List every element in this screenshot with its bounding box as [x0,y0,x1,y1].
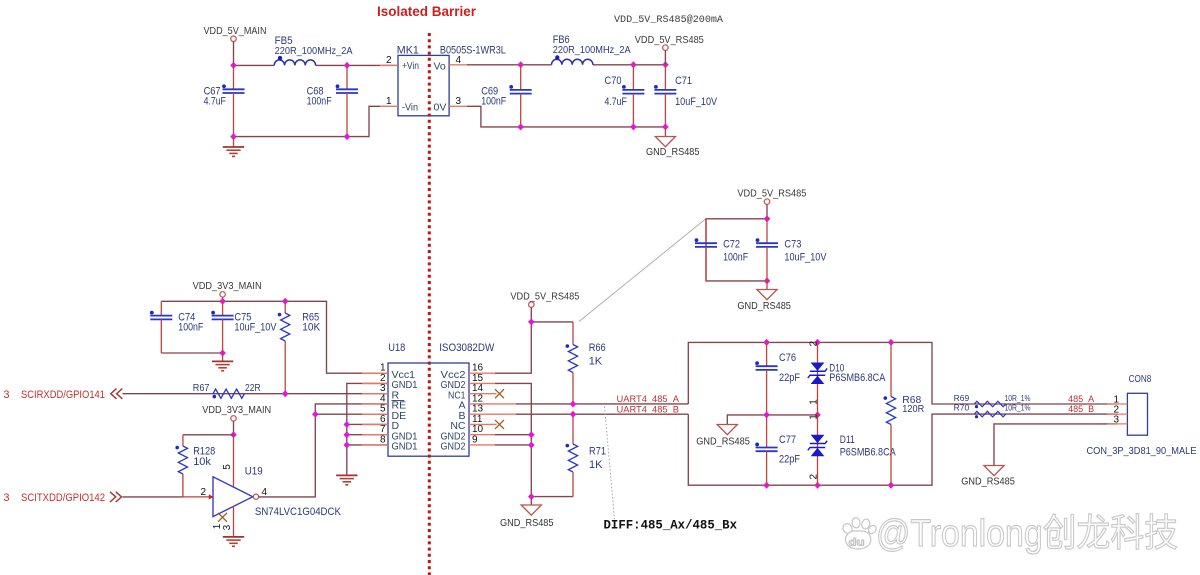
svg-text:P6SMB6.8CA: P6SMB6.8CA [829,372,886,384]
wire GND1 net left [347,383,388,475]
pin 3 MK1 [449,96,467,107]
node junction GND2-R71 [528,493,535,500]
op-amp inverter U19 [209,465,263,516]
svg-text:SN74LVC1G04DCK: SN74LVC1G04DCK [255,506,342,518]
title Isolated Barrier [377,4,477,19]
svg-text:22pF: 22pF [779,453,800,465]
svg-text:DIFF:485_Ax/485_Bx: DIFF:485_Ax/485_Bx [604,519,738,533]
svg-text:485_B: 485_B [1068,404,1094,414]
svg-text:3: 3 [3,389,9,401]
node junction rail-C67 [230,62,237,69]
ground GND_RS485 CON8 [961,466,1015,488]
capacitor C70 4.7uF [605,65,645,127]
node junction R71-B [570,411,577,418]
wire mid gnd rail [727,415,817,425]
svg-text:du: du [849,538,865,549]
svg-text:P6SMB6.8CA: P6SMB6.8CA [840,446,897,458]
node junction GND1 pin7 [344,431,351,438]
svg-text:VDD_5V_RS485: VDD_5V_RS485 [510,290,579,302]
svg-text:R70: R70 [954,403,970,413]
svg-text:C76: C76 [779,352,796,364]
svg-text:UART4_485_B: UART4_485_B [617,405,680,416]
net label 485_B [1068,404,1094,414]
isolation barrier line [428,33,431,575]
node junction GND2 pin10 [528,431,535,438]
pin 5 label U19 [222,435,234,488]
svg-text:C70: C70 [605,75,622,87]
node junction A-C76 [763,339,770,346]
svg-text:5: 5 [222,464,233,470]
svg-text:100nF: 100nF [178,322,203,334]
svg-text:U18: U18 [388,342,405,354]
resistor R68 120R [884,342,925,485]
ferrite bead FB5 [274,35,352,65]
pin 1 U18 [362,363,388,374]
svg-text:GND_RS485: GND_RS485 [961,475,1015,487]
node junction B-D11 [814,482,821,489]
svg-text:Isolated Barrier: Isolated Barrier [377,4,477,19]
ground GND_RS485 top [646,127,700,158]
ground GND 3V3 [212,353,233,371]
svg-text:SCITXDD/GPIO142: SCITXDD/GPIO142 [21,492,105,504]
resistor R128 10k [175,435,215,497]
node junction rail-C71 [662,61,669,68]
svg-text:0V: 0V [434,101,447,113]
svg-text:120R: 120R [902,403,924,415]
svg-text:UART4_485_A: UART4_485_A [617,394,680,405]
pin 9 U18 [469,434,495,445]
svg-text:C77: C77 [779,434,796,446]
node junction bottom-C68 [344,133,351,140]
svg-text:10K: 10K [302,322,321,334]
svg-text:GND_RS485: GND_RS485 [646,146,700,158]
resistor R71 1K [566,414,607,496]
node junction A-R68 [888,339,895,346]
node junction bottom-C67 [230,133,237,140]
resistor R67 22R [193,382,261,398]
capacitor C68 100nF [307,65,358,136]
pin 4 MK1 [449,55,467,66]
svg-text:R66: R66 [589,342,606,354]
svg-text:U19: U19 [245,465,263,477]
pin 2 CON8 [1107,405,1127,416]
svg-text:D11: D11 [840,434,855,446]
svg-text:1K: 1K [589,356,603,368]
svg-text:2: 2 [809,341,820,347]
ferrite bead FB6 [552,34,631,65]
svg-text:R67: R67 [193,382,210,394]
svg-text:220R_100MHz_2A: 220R_100MHz_2A [553,44,631,56]
leader line DIFF note [605,407,615,520]
svg-text:+Vin: +Vin [402,60,419,72]
svg-text:VDD_5V_RS485@200mA: VDD_5V_RS485@200mA [614,14,723,26]
svg-text:4.7uF: 4.7uF [204,95,227,107]
svg-text:100nF: 100nF [723,252,748,264]
wire SCITXDD net [123,496,214,498]
port SCIRXDD/GPIO141 [3,389,122,401]
node junction 3V3-R65 [282,298,289,305]
power VDD_5V_RS485 Vcc2 [510,290,579,322]
wire top rail left [234,64,399,66]
svg-text:3: 3 [456,96,462,107]
net label UART4_485_A [617,394,680,405]
node junction rail-C70 [630,61,637,68]
svg-text:MK1: MK1 [397,44,419,56]
tvs diode D11 P6SMB6.8CA [808,414,896,485]
svg-text:10uF_10V: 10uF_10V [675,96,718,108]
pin 4 U19 [262,487,268,498]
capacitor C74 100nF [150,301,204,353]
svg-text:VDD_5V_RS485: VDD_5V_RS485 [635,34,704,46]
svg-text:22pF: 22pF [779,372,800,384]
pin 4 U18 [362,393,388,404]
capacitor C71 10uF_10V [654,65,718,127]
port SCITXDD/GPIO142 [3,492,121,504]
svg-text:VDD_5V_RS485: VDD_5V_RS485 [737,187,806,199]
pin 2 U19 [200,487,206,498]
wire 0V bottom rail right [467,106,665,127]
svg-text:GND2: GND2 [441,441,466,453]
svg-text:4.7uF: 4.7uF [605,96,628,108]
wire UART4_485_A net [516,403,688,405]
svg-text:C71: C71 [675,75,692,87]
svg-text:3: 3 [222,524,233,530]
node junction VDD-R128 [230,431,237,438]
svg-text:1K: 1K [589,459,603,471]
node junction rail-C69 [517,61,524,68]
power VDD_5V_RS485 decoupling [737,187,806,218]
svg-text:SCIRXDD/GPIO141: SCIRXDD/GPIO141 [21,389,105,401]
svg-text:VDD_5V_MAIN: VDD_5V_MAIN [204,25,267,37]
svg-text:VDD_3V3_MAIN: VDD_3V3_MAIN [202,404,271,416]
wire 3V3 rail [161,301,388,373]
node junction mid-C76 [763,411,770,418]
pin 5 U18 [362,404,388,415]
pin 16 U18 [469,363,495,374]
node junction RE-DE [312,411,319,418]
dc-dc module MK1 B0505S-1WR3L [397,44,506,116]
resistor R69 10R_1% [954,393,1031,408]
wire Vo rail right [467,64,665,66]
pin 14 U18 [469,383,497,394]
wire A top rail [688,342,1117,404]
wire C74 bottom [161,352,222,354]
node junction C75 bottom [219,350,226,357]
wire GND2 net [495,383,573,505]
node junction B-C77 [763,482,770,489]
ground GND main [223,137,244,157]
part number SN74LVC1G04DCK [255,506,342,518]
svg-text:10k: 10k [193,456,211,468]
ground GND U18 [336,475,357,484]
node junction 3V3-C75 [219,298,226,305]
node junction bottom-C71 [662,123,669,130]
svg-text:485_A: 485_A [1068,394,1094,404]
no-connect NC [495,420,504,429]
svg-text:10uF_10V: 10uF_10V [784,252,827,264]
resistor R70 10R_1% [954,403,1031,419]
svg-text:R71: R71 [589,445,606,457]
pin 15 U18 [469,373,495,384]
node junction D pin6 [344,421,351,428]
svg-text:GND_RS485: GND_RS485 [737,300,791,312]
resistor R65 10K [278,301,321,393]
svg-text:CON8: CON8 [1129,373,1152,385]
pin 2 U18 [362,373,388,384]
svg-text:1: 1 [386,96,392,107]
pin 3 U18 [362,383,388,394]
svg-text:GND1: GND1 [392,441,418,453]
node junction bottom-C69 [517,123,524,130]
watermark text [876,513,1178,555]
svg-text:GND_RS485: GND_RS485 [500,517,554,529]
wire SCIRXDD net [123,393,389,395]
connector CON8 [1087,373,1197,457]
svg-text:B0505S-1WR3L: B0505S-1WR3L [440,44,506,56]
svg-text:CON_3P_3D81_90_MALE: CON_3P_3D81_90_MALE [1087,445,1197,457]
wire B bottom rail [688,414,1117,485]
node junction GND1 pin8 [344,441,351,448]
node junction C73 bottom [764,277,771,284]
capacitor C73 10uF_10V [756,219,827,281]
svg-text:100nF: 100nF [307,95,332,107]
capacitor C72 100nF [695,219,749,281]
note DIFF:485_Ax/485_Bx [604,519,738,533]
no-connect pin 1 U19 [212,513,227,530]
node junction bottom-C70 [630,123,637,130]
svg-text:2: 2 [200,487,206,498]
node junction GND2 pin9 [528,441,535,448]
node junction Vcc2-R66 [528,318,535,325]
power VDD_3V3_MAIN [193,280,262,301]
wire CON8 pin3 gnd [994,424,1117,466]
svg-text:Vo: Vo [434,61,446,73]
svg-text:1: 1 [809,414,820,420]
svg-text:10uF_10V: 10uF_10V [234,322,277,334]
callout line to decoupling group [579,219,706,322]
power VDD_3V3_MAIN U19 [202,404,271,435]
wire Vcc2 net [495,322,573,373]
tvs diode D10 P6SMB6.8CA [808,341,886,415]
pin 11 U18 [469,414,497,425]
pin 3 CON8 [1107,414,1127,425]
no-connect NC1 [495,389,504,398]
svg-text:@Tronlong创龙科技: @Tronlong创龙科技 [876,513,1178,555]
pin 13 U18 [469,404,516,415]
power VDD_5V_MAIN [204,25,267,65]
capacitor C76 22pF [755,342,800,415]
svg-text:2: 2 [809,474,820,480]
capacitor C77 22pF [755,415,800,485]
wire C72 C73 loop [706,219,767,281]
pin 7 U18 [362,424,388,435]
wire UART4_485_B net [516,413,688,415]
svg-text:9: 9 [472,434,478,445]
resistor R66 1K [566,322,606,404]
wire DE branch [315,413,388,415]
ground GND_RS485 mid [696,425,750,448]
pin 2 MK1 [380,55,398,66]
transceiver U18 ISO3082DW [388,342,495,456]
wire R128 top [183,434,234,436]
svg-text:VDD_3V3_MAIN: VDD_3V3_MAIN [193,280,262,292]
ground GND U19 [223,506,244,546]
node junction mid-D10 [814,411,821,418]
watermark paw icon [841,517,877,549]
ground GND_RS485 decoupling [737,281,791,312]
node junction A-D10 [814,339,821,346]
pin 6 U18 [362,414,388,425]
pin 1 MK1 [380,96,398,107]
svg-text:100nF: 100nF [481,95,506,107]
node junction rail-C68 [344,62,351,69]
pin 12 U18 [469,393,516,404]
svg-text:220R_100MHz_2A: 220R_100MHz_2A [275,45,353,57]
svg-text:R69: R69 [954,393,970,403]
svg-text:22R: 22R [245,382,261,394]
svg-text:3: 3 [3,492,9,504]
svg-text:GND_RS485: GND_RS485 [696,436,750,448]
node junction R65-RXD [282,390,289,397]
node junction B-R68 [888,482,895,489]
svg-text:-Vin: -Vin [402,101,418,113]
wire bottom rail left [234,106,389,136]
svg-text:2: 2 [386,55,392,66]
svg-text:C73: C73 [784,238,801,250]
node junction R66-A [570,400,577,407]
ground GND_RS485 U18 [500,505,554,529]
svg-text:10R_1%: 10R_1% [1005,403,1031,413]
svg-text:8: 8 [380,434,386,445]
wire inverter output to RE/DE [259,404,388,497]
svg-text:10R_1%: 10R_1% [1005,393,1031,403]
pin 3 label U19 [222,524,233,530]
pin 8 U18 [362,434,388,445]
net label 485_A [1068,394,1094,404]
pin 10 U18 [469,424,495,435]
capacitor C67 4.7uF [204,65,245,136]
net label UART4_485_B [617,405,680,416]
capacitor C69 100nF [481,65,532,127]
capacitor C75 10uF_10V [211,301,277,353]
power VDD_5V_RS485 at 200mA [614,14,723,65]
pin 1 CON8 [1107,394,1127,405]
node junction C73 top [764,215,771,222]
svg-text:1: 1 [809,399,820,405]
svg-text:ISO3082DW: ISO3082DW [439,342,495,354]
svg-text:C72: C72 [723,238,740,250]
